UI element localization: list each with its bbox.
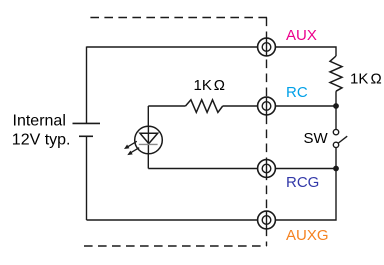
wire: RCG rail [148, 168, 336, 170]
LED D1 cathode bar [139, 143, 158, 145]
svg-text:RCG: RCG [286, 174, 319, 191]
resistor R2 vertical 1K [330, 56, 342, 91]
wire: RC rail [223, 105, 336, 107]
wire: RC rail left of resistor R1 [148, 105, 185, 107]
svg-text:AUXG: AUXG [286, 227, 329, 244]
LED D1 circle [135, 126, 163, 154]
switch SW blade [338, 136, 347, 143]
LED D1 vertical lead through circle [147, 126, 149, 154]
dashed boundary top [88, 17, 267, 19]
svg-text:Ω: Ω [371, 71, 382, 88]
svg-text:1K: 1K [350, 71, 368, 88]
svg-text:SW: SW [304, 130, 329, 147]
svg-text:12V typ.: 12V typ. [12, 131, 71, 148]
terminal RC [258, 97, 276, 115]
node junction RC/R2/SW [333, 103, 339, 109]
svg-text:Ω: Ω [214, 77, 225, 94]
wire: bottom rail AUXG [87, 169, 337, 221]
svg-text:AUX: AUX [286, 27, 317, 44]
wire: resistor R2 bottom lead to node [335, 91, 337, 106]
wire: battery + up to top rail [86, 47, 88, 124]
battery B1 short plate [79, 135, 93, 137]
svg-text:Internal: Internal [13, 113, 66, 130]
node junction RCG/SW [333, 166, 339, 172]
terminal AUXG [258, 211, 276, 229]
battery B1 long plate [73, 122, 101, 124]
wire: top rail AUX (battery to resistor corner) [87, 47, 337, 56]
terminal RCG [258, 160, 276, 178]
svg-text:RC: RC [286, 84, 308, 101]
svg-text:1K: 1K [194, 77, 212, 94]
wire: LED anode lead [147, 106, 149, 127]
wire: battery - down to bottom rail [86, 136, 88, 220]
wire: switch bottom to RCG node [335, 148, 337, 169]
dashed boundary bottom [84, 245, 267, 247]
LED D1 emission arrow 1 [124, 141, 137, 149]
wire: LED cathode lead to RCG rail [147, 154, 149, 169]
switch SW bottom contact [333, 142, 338, 147]
resistor R1 horizontal 1K [186, 100, 223, 113]
dashed boundary right vertical [266, 18, 268, 247]
terminal AUX [258, 38, 276, 56]
wire: node to switch top [335, 106, 337, 129]
switch SW top contact [333, 129, 338, 134]
LED D1 triangle [140, 133, 158, 143]
LED D1 emission arrow 2 [127, 148, 139, 155]
